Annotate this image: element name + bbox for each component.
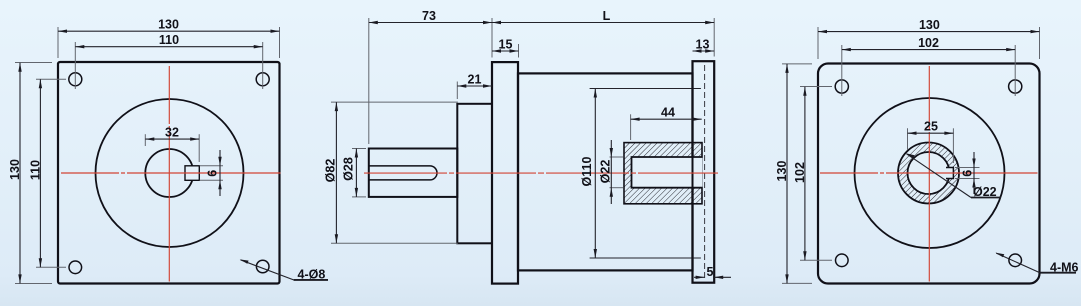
dimension 21 (457, 73, 492, 100)
svg-text:102: 102 (793, 162, 807, 183)
centerline vertical left view (168, 66, 170, 282)
dimension 130 top rear (818, 18, 1040, 33)
centerline horizontal rear view (820, 172, 1038, 174)
svg-text:73: 73 (422, 9, 436, 23)
dimension 73 (369, 9, 492, 144)
svg-text:Ø22: Ø22 (599, 160, 613, 184)
extension line through left-bottom hole rear (800, 259, 832, 261)
svg-text:4-Ø8: 4-Ø8 (298, 267, 326, 281)
dimension 110 left (29, 79, 43, 267)
leader 4-diameter-8 (240, 259, 328, 281)
extension line top-left corner (57, 27, 59, 58)
extension line through top-left hole rear (841, 45, 843, 96)
front flange section (492, 62, 518, 284)
svg-text:6: 6 (206, 170, 220, 177)
pilot boss section (457, 104, 492, 244)
dimension diameter 28 (342, 149, 367, 197)
extension line through top-left hole (74, 42, 76, 89)
dimension 130 top (58, 18, 280, 33)
dimension 13 (693, 38, 715, 53)
leader 4-M6 (995, 253, 1078, 275)
svg-text:Ø22: Ø22 (973, 185, 997, 199)
dimension 15 (492, 38, 519, 58)
dimension diameter 110 (580, 89, 597, 259)
flange plate outline rear (818, 64, 1040, 284)
svg-text:Ø28: Ø28 (342, 157, 356, 181)
svg-text:6: 6 (961, 170, 975, 177)
extension line left-bottom corner rear (782, 282, 812, 284)
extension line top-right corner rear (1039, 27, 1041, 59)
dimension diameter 22 bore (599, 140, 624, 204)
extension line through left-top hole (36, 78, 66, 80)
svg-text:130: 130 (8, 159, 22, 180)
gearbox body (518, 73, 693, 270)
hatched hub ring (898, 143, 959, 204)
svg-text:L: L (603, 9, 611, 23)
dimension 44 (631, 106, 702, 140)
extension line through top-right hole rear (1014, 45, 1016, 96)
dimension 5 (694, 265, 731, 279)
svg-text:Ø110: Ø110 (580, 157, 594, 187)
pilot boss circle (96, 99, 244, 247)
extension line through top-right hole (262, 42, 264, 89)
svg-text:13: 13 (696, 38, 710, 52)
leader diameter 22 hub (906, 153, 1001, 199)
hub bore circle (908, 152, 950, 194)
hidden line rear recess (704, 65, 706, 279)
rear flange section (693, 61, 715, 283)
extension line top-left corner rear (817, 27, 819, 59)
svg-text:25: 25 (924, 120, 938, 134)
centerline horizontal left view (61, 172, 281, 174)
svg-text:32: 32 (165, 126, 179, 140)
bolt hole top-right rear (1009, 80, 1022, 93)
dimension 102 top rear (842, 36, 1015, 51)
extension line left-bottom corner (15, 283, 52, 285)
dimension 6 keyway (200, 150, 224, 196)
hub keyway notch (946, 168, 953, 179)
svg-text:110: 110 (29, 160, 43, 180)
bolt hole bottom-left (69, 261, 82, 274)
svg-text:4-M6: 4-M6 (1050, 261, 1079, 275)
hatched bearing section (624, 143, 703, 204)
svg-text:102: 102 (918, 36, 939, 50)
bolt hole bottom-right rear (1009, 254, 1022, 267)
bore recess lines (590, 89, 701, 259)
rear flange inner edge (692, 61, 694, 283)
svg-text:5: 5 (707, 265, 714, 279)
dimension 6 hub keyway (955, 152, 980, 194)
svg-text:15: 15 (499, 38, 513, 52)
output shaft section (369, 149, 458, 197)
centerline middle view (364, 172, 718, 174)
shaft circle (145, 149, 193, 197)
svg-text:130: 130 (775, 161, 789, 182)
bolt hole top-right (256, 73, 269, 86)
centerline vertical rear view (928, 66, 930, 282)
dimension 130 left (8, 63, 22, 284)
extension line through left-bottom hole (36, 266, 66, 268)
svg-text:110: 110 (159, 33, 179, 47)
svg-text:130: 130 (919, 18, 940, 32)
bolt hole top-left rear (835, 80, 848, 93)
housing circle rear (855, 98, 1005, 248)
dimension 130 left rear (775, 64, 789, 284)
shaft keyway slot (369, 166, 437, 180)
svg-text:21: 21 (468, 73, 482, 87)
extension line left-top corner (15, 62, 52, 64)
dimension 25 (908, 120, 954, 163)
svg-text:44: 44 (661, 106, 675, 120)
shaft keyway (185, 166, 199, 181)
dimension 110 top (75, 33, 262, 48)
dimension diameter 82 (324, 102, 458, 243)
bolt hole top-left (69, 73, 82, 86)
bolt hole bottom-left rear (836, 254, 849, 267)
svg-text:130: 130 (158, 18, 179, 32)
extension line left-top corner rear (782, 63, 812, 65)
svg-text:Ø82: Ø82 (324, 159, 338, 183)
dimension 102 left rear (793, 87, 807, 260)
dimension 32 (145, 126, 199, 162)
extension line through left-top hole rear (800, 86, 832, 88)
extension line top-right corner (279, 27, 281, 58)
bolt hole bottom-right (256, 260, 269, 273)
flange plate outline (58, 62, 280, 284)
dimension L (492, 9, 714, 57)
